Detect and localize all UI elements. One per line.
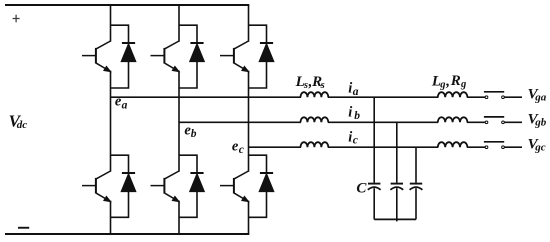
svg-text:c: c: [353, 135, 358, 147]
switch Sa (grid breaker): [484, 92, 504, 99]
wire: leg 3 vertical (collector rail from top bus): [248, 5, 250, 42]
label Lg, Rg: [431, 73, 466, 90]
wire: phase b line switch to grid terminal: [504, 121, 522, 123]
diode D3 (upper freewheeling diode): [179, 25, 204, 88]
inductor Lg phase a: [438, 92, 468, 97]
transistor Q3 (upper IGBT): [151, 41, 180, 72]
label Ls, Rs: [295, 74, 325, 91]
capacitor Ca: [368, 184, 381, 220]
inductor Ls phase c: [301, 142, 329, 147]
wire: phase c line from Lg to switch: [467, 146, 485, 148]
svg-text:gb: gb: [534, 117, 547, 129]
transistor Q6 (lower IGBT): [220, 171, 249, 202]
svg-text:g: g: [439, 79, 445, 90]
svg-text:C: C: [356, 180, 367, 196]
svg-text:i: i: [348, 105, 352, 121]
diode D4 (lower freewheeling diode): [179, 155, 204, 217]
wire: leg 1 vertical (emitter rail to bottom bus): [110, 201, 112, 234]
wire: tap from phase c down to capacitor: [415, 147, 417, 183]
label V_gb: [528, 112, 547, 129]
svg-text:R: R: [450, 73, 461, 89]
wire: phase c line from Ls to Lg: [328, 146, 439, 148]
label i_a (line current): [348, 81, 358, 98]
wire: phase a line switch to grid terminal: [504, 96, 522, 98]
wire: leg 1 vertical (collector rail from top bus): [110, 5, 112, 42]
wire: leg 2 vertical (emitter rail to bottom bus): [178, 201, 180, 234]
switch Sc (grid breaker): [484, 142, 504, 149]
transistor Q2 (lower IGBT): [82, 171, 111, 202]
svg-text:b: b: [191, 128, 197, 140]
inductor Ls phase b: [301, 117, 329, 122]
wire: phase c line switch to grid terminal: [504, 146, 522, 148]
transistor Q5 (upper IGBT): [220, 41, 249, 72]
svg-text:ga: ga: [534, 91, 547, 103]
svg-text:,: ,: [445, 73, 450, 89]
node e_b (label): [184, 123, 196, 140]
wire: leg 2 vertical (collector rail from top bus): [178, 5, 180, 42]
wire: phase b line from Lg to switch: [467, 121, 485, 123]
wire: bottom DC bus: [5, 233, 249, 235]
wire: tap from phase b down to capacitor: [396, 122, 398, 183]
svg-text:gc: gc: [534, 142, 546, 154]
svg-text:g: g: [460, 79, 466, 90]
svg-text:b: b: [354, 110, 360, 122]
capacitor Cc: [410, 184, 423, 220]
diode D1 (upper freewheeling diode): [111, 25, 136, 88]
svg-text:c: c: [239, 144, 244, 156]
wire: phase b line from Ls to Lg: [328, 121, 439, 123]
label i_c: [348, 129, 358, 146]
node e_a (label): [115, 93, 128, 111]
transistor Q4 (lower IGBT): [151, 171, 180, 202]
wire: phase b line from leg midpoint to Ls: [179, 121, 301, 123]
svg-text:dc: dc: [17, 119, 28, 131]
svg-text:a: a: [122, 99, 128, 111]
wire: top DC bus: [5, 4, 249, 6]
capacitor Cb: [390, 184, 403, 222]
label V_gc: [528, 137, 546, 154]
wire: leg 3 vertical (midpoint rail): [248, 71, 250, 172]
label V_ga (grid voltage a): [528, 86, 547, 103]
svg-text:s: s: [303, 80, 308, 91]
wire: phase a line from Lg to switch: [467, 96, 485, 98]
switch Sb (grid breaker): [484, 117, 504, 124]
diode D6 (lower freewheeling diode): [249, 155, 274, 217]
wire: capacitor common bus: [374, 218, 416, 220]
svg-text:s: s: [320, 80, 325, 91]
wire: leg 3 vertical (emitter rail to bottom bus): [248, 201, 250, 234]
diode D5 (upper freewheeling diode): [249, 25, 274, 88]
node e_c (label): [232, 139, 244, 157]
label - (DC negative terminal): [18, 227, 29, 229]
wire: leg 2 vertical (midpoint rail): [178, 71, 180, 172]
wire: phase a line from leg midpoint to Ls: [111, 96, 302, 98]
label Vdc: [9, 112, 28, 131]
svg-text:a: a: [353, 86, 359, 98]
wire: phase a line from Ls to Lg: [328, 96, 439, 98]
label i_b: [348, 105, 360, 122]
inductor Lg phase b: [438, 117, 468, 122]
label + (DC positive terminal): [13, 15, 20, 23]
diode D2 (lower freewheeling diode): [111, 155, 136, 217]
inductor Ls phase a: [301, 92, 329, 97]
wire: phase c line from leg midpoint to Ls: [249, 146, 302, 148]
wire: leg 1 vertical (midpoint rail): [110, 71, 112, 172]
inductor Lg phase c: [438, 142, 468, 147]
transistor Q1 (upper IGBT): [82, 41, 111, 72]
wire: tap from phase a down to capacitor: [373, 97, 375, 183]
